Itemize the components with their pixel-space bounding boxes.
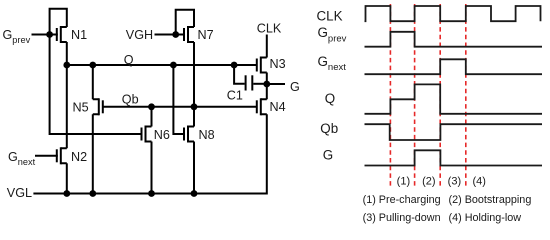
wire N8 source to VGL — [193, 142, 195, 194]
transistor N6 — [142, 126, 152, 143]
svg-text:Qb: Qb — [320, 121, 338, 136]
svg-text:Q: Q — [325, 91, 335, 106]
svg-text:Gnext: Gnext — [318, 54, 347, 73]
node VGL junction at N6 — [148, 190, 155, 197]
node Gprev input wire — [32, 34, 58, 36]
timing diagram — [390, 4, 465, 186]
svg-text:Gprev: Gprev — [318, 25, 347, 44]
node G junction dot — [263, 81, 270, 88]
wire N8 gate tap from Q — [173, 65, 183, 134]
transistor N1 — [57, 26, 67, 43]
node Qb junction at N6 drain — [148, 103, 155, 110]
node Qb junction at N7-N8 column — [191, 103, 198, 110]
svg-text:N1: N1 — [71, 28, 87, 42]
node Q junction at N1 source — [63, 62, 70, 69]
svg-text:N3: N3 — [270, 57, 286, 71]
wire VGL rail — [33, 114, 266, 193]
node VGL junction at N5 — [89, 190, 96, 197]
svg-text:N6: N6 — [154, 128, 170, 142]
waveform Qb — [365, 124, 543, 140]
transistor N4 — [257, 98, 267, 115]
waveform Gprev — [365, 32, 543, 47]
wire N7 source to N8 drain vertical — [193, 42, 195, 127]
wire G node vertical N3 source to N4 drain — [266, 73, 268, 100]
node Gnext input wire — [35, 155, 58, 157]
node VGH junction dot — [172, 31, 179, 38]
waveform G — [365, 150, 543, 165]
svg-text:(1): (1) — [397, 175, 410, 187]
node VGH input wire — [155, 34, 186, 36]
svg-text:N4: N4 — [270, 100, 286, 114]
node Q junction at N5 drain — [89, 62, 96, 69]
transistor N5 — [93, 98, 103, 115]
svg-text:N2: N2 — [71, 150, 87, 164]
wire G output — [267, 83, 285, 85]
svg-text:VGH: VGH — [126, 28, 153, 42]
svg-text:CLK: CLK — [257, 22, 282, 36]
phase boundary dashed line 4 — [465, 4, 467, 186]
transistor N2 — [57, 147, 67, 164]
transistor N7 — [184, 26, 194, 43]
svg-text:G: G — [290, 80, 300, 94]
node Gprev junction dot — [46, 31, 53, 38]
svg-text:(3) Pulling-down: (3) Pulling-down — [363, 212, 441, 224]
node Q junction at C1 tap — [231, 62, 238, 69]
svg-text:N8: N8 — [199, 128, 215, 142]
svg-text:Gnext: Gnext — [8, 150, 36, 167]
wire N5 drain from Q — [92, 65, 94, 99]
wire Qb rail — [103, 106, 257, 108]
phase boundary dashed line 3 — [439, 4, 441, 186]
svg-text:C1: C1 — [227, 89, 243, 103]
svg-text:CLK: CLK — [317, 9, 343, 24]
svg-text:Qb: Qb — [122, 92, 139, 106]
node VGL junction at N2 — [63, 190, 70, 197]
wire N7 gate-drain loop — [176, 10, 194, 35]
node VGL junction at N8 — [191, 190, 198, 197]
wire N6 drain from Qb — [151, 107, 153, 127]
wire N6 source to VGL — [151, 142, 153, 194]
svg-text:(4): (4) — [472, 175, 485, 187]
capacitor C1 — [234, 65, 267, 91]
waveform Q — [365, 84, 543, 113]
wire Gprev down to N6 gate — [50, 35, 141, 135]
transistor N3 — [257, 57, 267, 74]
wire Q rail — [67, 64, 257, 66]
svg-text:(3): (3) — [448, 175, 461, 187]
phase boundary dashed line 2 — [414, 4, 416, 186]
wire CLK to N3 drain — [266, 35, 268, 58]
svg-text:N5: N5 — [73, 100, 89, 114]
wire N1 gate-drain loop — [50, 9, 67, 35]
svg-text:VGL: VGL — [7, 186, 32, 200]
svg-text:(1) Pre-charging: (1) Pre-charging — [363, 194, 441, 206]
svg-text:(2): (2) — [422, 175, 435, 187]
wire N5 source to VGL — [92, 114, 94, 193]
phase boundary dashed line 1 — [389, 4, 391, 186]
node Q junction at N8 gate tap — [170, 62, 177, 69]
svg-text:Gprev: Gprev — [3, 28, 31, 45]
waveform CLK — [365, 6, 541, 21]
transistor N8 — [184, 126, 194, 143]
svg-text:Q: Q — [124, 53, 134, 67]
svg-text:G: G — [323, 148, 333, 163]
svg-text:N7: N7 — [198, 28, 214, 42]
waveform Gnext — [365, 59, 543, 74]
svg-text:(4) Holding-low: (4) Holding-low — [449, 212, 522, 224]
svg-text:(2) Bootstrapping: (2) Bootstrapping — [449, 194, 532, 206]
wire N1 source to N2 drain vertical — [66, 42, 68, 148]
wire N2 source to VGL — [66, 163, 68, 193]
